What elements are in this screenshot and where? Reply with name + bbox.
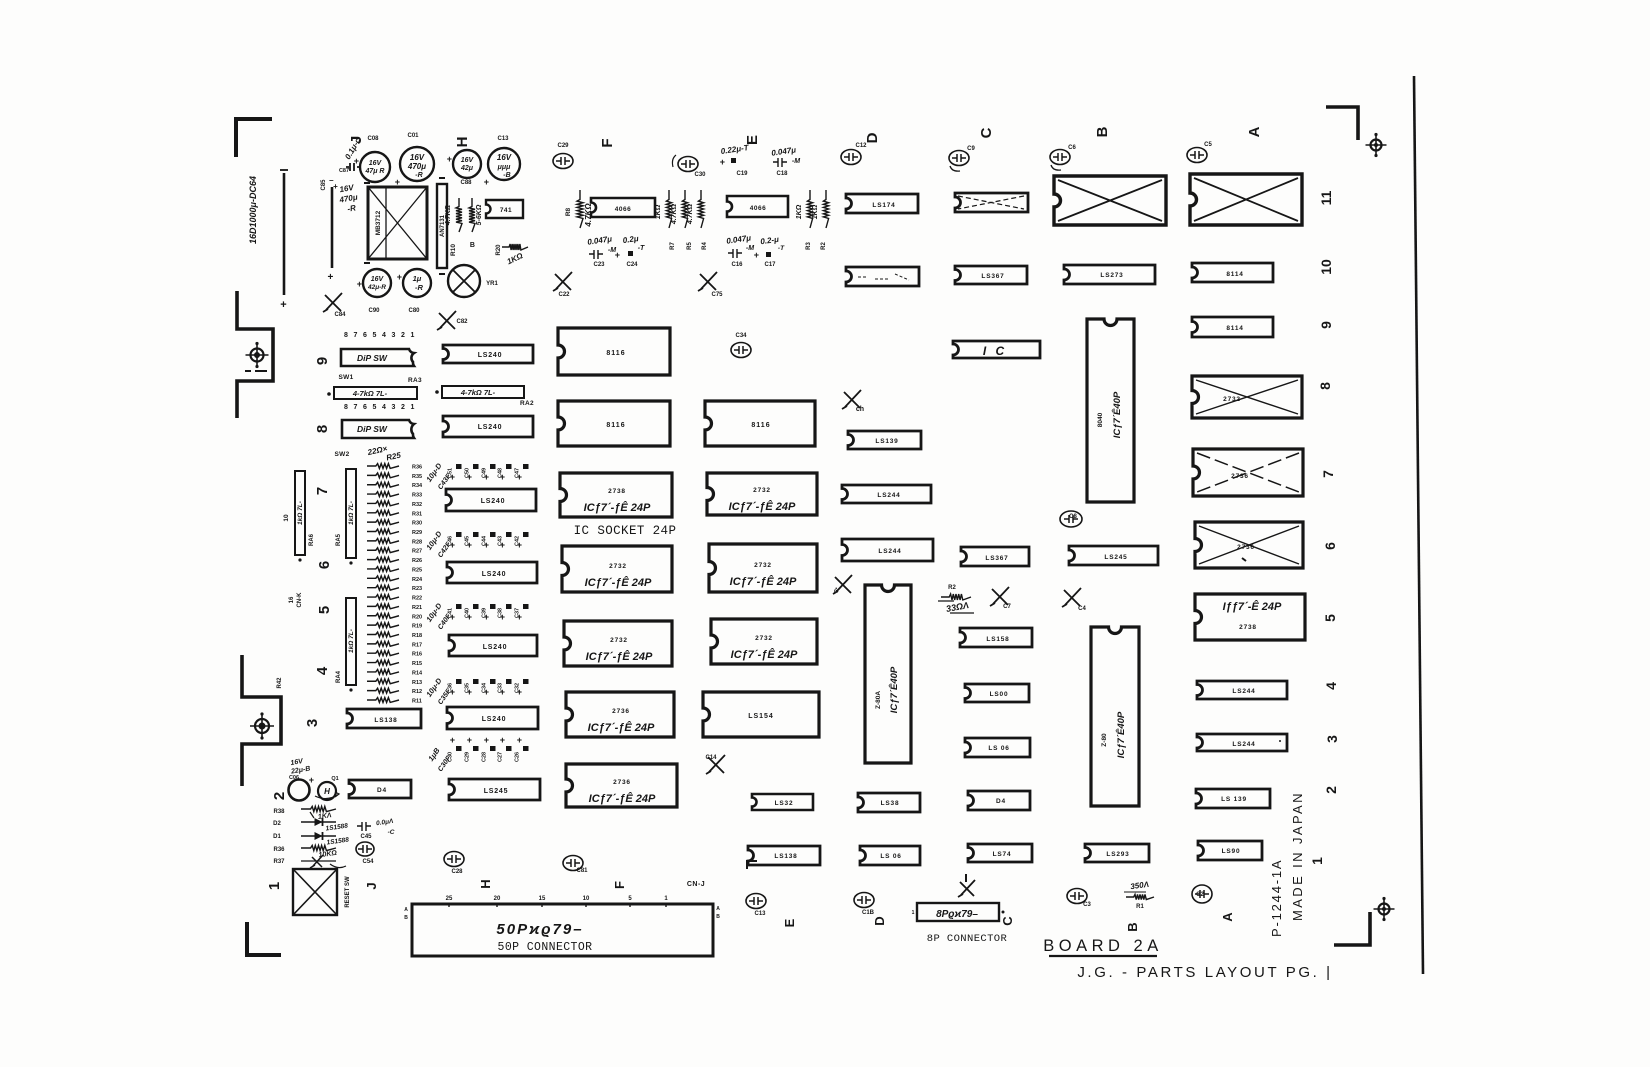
IC crossed big B row11: [1054, 176, 1166, 225]
column letter E top: [744, 135, 761, 145]
resistor R11 5.6K: [469, 198, 483, 232]
svg-text:R13: R13: [412, 680, 422, 686]
capacitor C2: [1192, 885, 1212, 903]
svg-text:C33: C33: [498, 683, 504, 693]
svg-text:C23: C23: [593, 262, 605, 268]
svg-text:+: +: [754, 250, 760, 260]
svg-text:2736: 2736: [1231, 473, 1249, 480]
svg-text:10: 10: [583, 896, 590, 902]
svg-text:DiP SW: DiP SW: [357, 424, 388, 434]
cut mark C22: [553, 272, 572, 298]
svg-text:16V: 16V: [371, 276, 385, 283]
svg-text:C14: C14: [705, 755, 717, 761]
svg-text:15: 15: [539, 896, 546, 902]
capacitor C87 value scrawl: [343, 136, 363, 161]
capacitor C13 bottom: [746, 894, 766, 918]
svg-text:3: 3: [392, 404, 396, 411]
IC LS240 row 6: [447, 562, 537, 583]
svg-text:A: A: [1246, 126, 1263, 137]
IC LS244 A row3: [1197, 734, 1287, 751]
svg-text:3: 3: [304, 719, 321, 727]
column letter J top: [348, 136, 365, 144]
label R42: [277, 677, 283, 689]
svg-text:C6: C6: [1068, 145, 1076, 151]
IC LS90: [1198, 841, 1262, 860]
svg-text:1KΩ: 1KΩ: [655, 204, 662, 219]
svg-text:RA4: RA4: [336, 670, 342, 683]
text J.G. PARTS LAYOUT PG.1: [1077, 964, 1332, 981]
IC LS138 row 3: [347, 709, 421, 728]
svg-text:5: 5: [1322, 614, 1338, 622]
svg-text:4.7KΩ: 4.7KΩ: [671, 203, 678, 225]
IC LS158: [960, 628, 1032, 647]
svg-text:ICƒ7´-ƒÊ 24P: ICƒ7´-ƒÊ 24P: [589, 792, 656, 805]
capacitor C87 symbol: [339, 163, 360, 174]
svg-text:LS158: LS158: [986, 636, 1009, 643]
svg-text:LS 06: LS 06: [880, 853, 901, 860]
svg-text:D4: D4: [996, 798, 1006, 805]
IC socket Z-80 40P: [1091, 627, 1139, 806]
svg-text:C46: C46: [448, 536, 454, 546]
svg-text:R14: R14: [412, 670, 423, 676]
svg-text:ICƒ7´Ê40P: ICƒ7´Ê40P: [1111, 391, 1123, 438]
svg-text:8: 8: [344, 332, 348, 339]
svg-text:RA2: RA2: [520, 400, 534, 407]
net label CN-J: [687, 881, 705, 888]
capacitor C85 value scrawl: [333, 182, 358, 214]
cut mark C7: [990, 587, 1011, 610]
svg-text:C29: C29: [557, 143, 569, 149]
svg-text:CN-K: CN-K: [297, 592, 303, 608]
svg-text:4: 4: [1323, 682, 1339, 690]
svg-text:7: 7: [354, 332, 358, 339]
row number 4 left: [314, 666, 331, 675]
svg-text:+: +: [500, 735, 506, 745]
svg-text:C85: C85: [321, 179, 327, 191]
IC LS240 row 7: [446, 489, 536, 511]
svg-text:4: 4: [382, 404, 386, 411]
svg-text:ICƒ7´-ƒÊ 24P: ICƒ7´-ƒÊ 24P: [730, 575, 797, 588]
svg-text:6: 6: [363, 332, 367, 339]
DIP switch SW2 box row 8: [342, 420, 414, 438]
svg-text:4066: 4066: [750, 205, 766, 212]
svg-text:R2: R2: [948, 585, 956, 591]
svg-text:C49: C49: [482, 468, 488, 478]
svg-text:C82: C82: [456, 319, 468, 325]
IC LS139: [848, 431, 921, 449]
svg-text:2: 2: [401, 404, 405, 411]
svg-text:C8: C8: [1069, 514, 1077, 520]
svg-text:1KΩ: 1KΩ: [796, 204, 803, 219]
svg-text:C41: C41: [448, 608, 454, 618]
text P-1244-1A rotated: [1269, 859, 1284, 937]
svg-text:C45: C45: [465, 536, 471, 546]
svg-text:ICƒ7´-ƒÊ 24P: ICƒ7´-ƒÊ 24P: [729, 500, 796, 513]
svg-text:C28: C28: [451, 869, 463, 875]
svg-text:5: 5: [373, 404, 377, 411]
pin digits row8: [344, 404, 415, 411]
resistor 4.7K (F2): [671, 190, 688, 228]
capacitor C23: [587, 234, 617, 268]
svg-text:R22: R22: [412, 596, 422, 602]
IC socket 2732 E row6: [709, 544, 817, 592]
svg-text:ICƒ7´-ƒÊ 24P: ICƒ7´-ƒÊ 24P: [585, 576, 652, 589]
svg-text:R42: R42: [277, 677, 283, 689]
svg-text:μμμ: μμμ: [497, 164, 511, 171]
column letter J bottom: [364, 882, 379, 889]
IC socket 2738 A row5: [1195, 594, 1305, 640]
svg-text:LS 06: LS 06: [988, 745, 1009, 752]
svg-text:16: 16: [289, 596, 295, 603]
svg-text:D4: D4: [377, 787, 387, 794]
svg-text:4066: 4066: [615, 206, 631, 213]
capacitor C24: [615, 234, 645, 268]
svg-text:50Pϰϱ79–: 50Pϰϱ79–: [496, 921, 583, 938]
svg-text:C16: C16: [731, 262, 743, 268]
svg-text:C: C: [1000, 916, 1015, 926]
capacitor C8: [1060, 511, 1082, 527]
svg-text:C22: C22: [558, 292, 570, 298]
IC socket Z-80A 40P: [865, 585, 911, 763]
svg-text:C54: C54: [362, 859, 374, 865]
row number 6 left: [316, 561, 333, 569]
8P connector box: [912, 903, 1005, 921]
svg-text:16V: 16V: [497, 153, 512, 162]
IC 4066 (1): [591, 198, 655, 217]
resistor R37: [273, 855, 346, 868]
row number 2 left: [271, 792, 288, 800]
svg-text:47μ R: 47μ R: [364, 168, 384, 175]
svg-text:F: F: [612, 881, 627, 889]
svg-text:2736: 2736: [1237, 544, 1255, 551]
svg-text:LS139: LS139: [875, 438, 898, 445]
svg-text:C30: C30: [694, 172, 706, 178]
svg-text:1kΩ 7L-: 1kΩ 7L-: [348, 501, 355, 525]
IC 4066 (2): [727, 196, 788, 217]
svg-text:2: 2: [271, 792, 288, 800]
svg-text:-R: -R: [415, 283, 423, 292]
svg-text:C13: C13: [754, 911, 766, 917]
svg-text:+: +: [450, 735, 456, 745]
row number 11 right: [1318, 190, 1334, 205]
svg-text:H: H: [454, 137, 471, 148]
svg-text:R28: R28: [412, 539, 422, 545]
row number 9 left: [314, 357, 331, 365]
svg-text:2732: 2732: [609, 563, 627, 570]
svg-text:MB3712: MB3712: [375, 210, 382, 235]
svg-text:LS90: LS90: [1222, 848, 1241, 855]
reset switch crossed box: [293, 869, 351, 915]
svg-text:R37: R37: [273, 859, 285, 865]
svg-text:R26: R26: [412, 558, 422, 564]
svg-text:6: 6: [316, 561, 333, 569]
svg-text:+: +: [467, 735, 473, 745]
svg-text:YR1: YR1: [486, 281, 498, 287]
svg-text:IC SOCKET 24P: IC SOCKET 24P: [574, 524, 677, 538]
capacitor C64 body line: [280, 170, 288, 311]
svg-text:R15: R15: [412, 661, 422, 667]
column letter H top: [454, 137, 471, 148]
svg-text:C43: C43: [498, 536, 504, 546]
row number 8 right: [1317, 382, 1333, 390]
svg-text:+: +: [484, 177, 490, 187]
capacitor C5: [1187, 142, 1212, 163]
resistor array RA2 bar: [435, 386, 524, 398]
50P connector scrawl: [496, 921, 583, 938]
svg-text:3: 3: [392, 332, 396, 339]
resistor R9 4.7K: [445, 198, 462, 232]
IC 8116 F row9: [558, 328, 670, 375]
svg-text:2732: 2732: [610, 637, 628, 644]
svg-text:R12: R12: [412, 689, 422, 695]
svg-text:1: 1: [411, 332, 415, 339]
IC crossed big A row11: [1190, 174, 1302, 225]
svg-text:6: 6: [1322, 542, 1338, 550]
svg-text:LS174: LS174: [872, 202, 895, 209]
IC LS06 C: [965, 738, 1030, 757]
svg-text:R33: R33: [412, 493, 422, 499]
svg-text:4: 4: [314, 666, 331, 675]
label SW1: [339, 374, 354, 381]
svg-text:470μ: 470μ: [407, 162, 426, 171]
svg-text:7: 7: [314, 487, 331, 495]
svg-text:C88: C88: [460, 180, 472, 186]
svg-text:B: B: [470, 242, 476, 249]
svg-text:LS240: LS240: [478, 424, 503, 431]
svg-text:SW2: SW2: [335, 451, 350, 458]
IC LS240 row 5: [449, 635, 537, 656]
svg-text:BOARD 2A: BOARD 2A: [1043, 937, 1162, 955]
svg-text:LS240: LS240: [483, 644, 508, 651]
svg-text:C87: C87: [339, 168, 349, 174]
svg-text:8: 8: [344, 404, 348, 411]
svg-text:MADE IN JAPAN: MADE IN JAPAN: [1290, 791, 1305, 921]
column letter B top: [1094, 126, 1111, 137]
svg-text:C7: C7: [1003, 604, 1011, 610]
svg-text:R29: R29: [412, 530, 422, 536]
text BOARD 2A: [1043, 937, 1162, 956]
svg-text:ICƒ7´-ƒÊ 24P: ICƒ7´-ƒÊ 24P: [586, 650, 653, 663]
IC LS245 B: [1069, 546, 1158, 565]
svg-text:A: A: [404, 907, 408, 913]
svg-text:LS00: LS00: [990, 691, 1009, 698]
svg-text:+: +: [327, 272, 334, 283]
dashed mark under F1: [245, 370, 267, 372]
IC D4 C: [968, 791, 1030, 810]
column letter E bottom: [782, 918, 797, 927]
capacitor C88: [447, 150, 481, 186]
svg-text:7: 7: [1320, 470, 1336, 478]
svg-text:R4: R4: [702, 242, 708, 250]
capacitor C80: [397, 269, 431, 314]
IC LS06 D: [860, 846, 920, 865]
svg-text:C13: C13: [497, 136, 509, 142]
row number 7 left: [314, 487, 331, 495]
svg-text:D2: D2: [273, 821, 281, 827]
svg-text:ICƒ7´-ƒÊ 24P: ICƒ7´-ƒÊ 24P: [731, 648, 798, 661]
svg-text:RA6: RA6: [309, 533, 315, 546]
svg-text:1: 1: [1309, 857, 1325, 865]
capacitor C19: [720, 143, 750, 177]
row number 9 right: [1318, 321, 1334, 329]
svg-text:6: 6: [363, 404, 367, 411]
svg-text:3: 3: [1324, 735, 1340, 743]
board corner bracket bottom-left: [247, 922, 281, 955]
svg-text:9: 9: [1318, 321, 1334, 329]
resistor ladder R11-R36: [367, 464, 423, 705]
svg-text:10: 10: [1318, 259, 1334, 275]
resistor 4.7K (F3): [687, 190, 704, 228]
label RA2: [520, 400, 534, 407]
IC socket 8040 40P: [1087, 319, 1134, 502]
svg-text:-R: -R: [415, 172, 422, 179]
svg-text:+: +: [517, 735, 523, 745]
svg-text:2738: 2738: [608, 488, 626, 495]
capacitor C34: [731, 333, 751, 358]
IC LS38: [858, 793, 920, 812]
row number 6 right: [1322, 542, 1338, 550]
svg-text:R1: R1: [1136, 904, 1144, 910]
svg-text:Z-80: Z-80: [1101, 733, 1108, 747]
svg-text:R34: R34: [412, 483, 423, 489]
row number 3 left: [304, 719, 321, 727]
row number 5 left: [316, 606, 333, 614]
svg-text:LS32: LS32: [775, 800, 794, 807]
svg-text:C47: C47: [515, 468, 521, 478]
svg-text:R21: R21: [412, 605, 422, 611]
svg-text:25: 25: [446, 896, 453, 902]
column letter A bottom: [1220, 912, 1235, 922]
IC socket 2732 E row5: [711, 619, 817, 664]
corner tick near E bottom: [747, 861, 757, 869]
svg-text:C42: C42: [515, 536, 521, 546]
text 8P CONNECTOR: [927, 933, 1008, 945]
svg-text:LS367: LS367: [985, 555, 1008, 562]
svg-text:LS245: LS245: [1104, 554, 1127, 561]
svg-text:LS367: LS367: [981, 273, 1004, 280]
svg-text:C90: C90: [368, 308, 380, 314]
svg-text:C: C: [978, 127, 995, 138]
svg-text:LS138: LS138: [774, 853, 797, 860]
svg-text:R35: R35: [412, 474, 422, 480]
capacitor C18: [771, 145, 801, 177]
svg-text:C34: C34: [482, 682, 488, 693]
capacitor C30: [672, 155, 706, 178]
fiducial mark F1: [246, 342, 269, 368]
IC LS154: [703, 692, 819, 737]
capacitor cluster C38-C42: [424, 529, 528, 559]
svg-text:LS293: LS293: [1106, 851, 1129, 858]
svg-text:D1: D1: [273, 834, 281, 840]
svg-text:LS244: LS244: [1232, 688, 1255, 695]
IC socket 2738 F row7: [560, 473, 672, 517]
svg-text:4-7kΩ 7L-: 4-7kΩ 7L-: [352, 389, 388, 398]
svg-text:8P CONNECTOR: 8P CONNECTOR: [927, 933, 1008, 945]
capacitor C29: [553, 143, 573, 169]
svg-text:2732: 2732: [755, 635, 773, 642]
svg-text:DiP SW: DiP SW: [357, 353, 388, 363]
module MB3712 crossed box: [364, 183, 427, 263]
IC crossed 2736 A row7: [1193, 449, 1303, 496]
svg-text:16V: 16V: [410, 153, 425, 162]
svg-text:Q1: Q1: [331, 776, 338, 782]
svg-text:H: H: [478, 879, 493, 888]
cut mark C82: [437, 311, 468, 330]
capacitor cluster C31-C35: [424, 676, 528, 706]
svg-text:8040: 8040: [1097, 412, 1104, 427]
svg-text:8: 8: [314, 425, 331, 433]
svg-text:LS273: LS273: [1100, 272, 1123, 279]
svg-text:C29: C29: [465, 752, 471, 762]
IC LS244 D row7: [842, 485, 931, 503]
IC LS367 C row10: [955, 266, 1027, 284]
svg-text:B: B: [716, 914, 720, 920]
cut mark C16 left: [833, 575, 852, 594]
resistor array RA3 bar: [327, 387, 417, 399]
column letter H bottom: [478, 879, 493, 888]
capacitor cluster C36-C40: [424, 601, 528, 631]
resistor R1 350ohm: [1124, 880, 1154, 910]
50P connector pin numbers: [404, 896, 720, 921]
svg-text:Iƒƒ7´-Ê 24P: Iƒƒ7´-Ê 24P: [1223, 600, 1282, 613]
capacitor C85 line: [321, 176, 335, 283]
svg-text:+: +: [397, 272, 403, 282]
svg-text:C3: C3: [1083, 902, 1091, 908]
svg-text:C32: C32: [515, 683, 521, 693]
IC LS367 C row6: [961, 547, 1029, 566]
svg-text:R36: R36: [273, 847, 285, 853]
svg-text:R19: R19: [412, 624, 422, 630]
svg-text:R24: R24: [412, 577, 423, 583]
svg-text:A: A: [1220, 912, 1235, 922]
svg-text:R25: R25: [412, 567, 422, 573]
IC marked I C: [953, 341, 1040, 358]
svg-text:16V: 16V: [461, 157, 475, 164]
scan right border line: [1414, 76, 1423, 974]
transistor Q1: [315, 776, 339, 800]
svg-text:F: F: [599, 138, 616, 147]
svg-text:5: 5: [373, 332, 377, 339]
svg-text:-T: -T: [638, 245, 645, 252]
svg-text:8Pϱϰ79–: 8Pϱϰ79–: [936, 909, 978, 920]
capacitor C9: [949, 146, 975, 171]
capacitor C45: [357, 818, 395, 840]
IC (illegible) D row10: [846, 267, 919, 286]
capacitor C06 value scrawl: [289, 758, 311, 781]
svg-text:C45: C45: [360, 834, 372, 840]
IC crossed small C row11: [955, 193, 1028, 212]
svg-text:P-1244-1A: P-1244-1A: [1269, 859, 1284, 937]
IC LS240 row 9: [443, 345, 533, 363]
cut mark ch: [842, 390, 864, 413]
IC LS139 A row2: [1196, 789, 1270, 808]
diode D2: [273, 818, 349, 833]
cut mark above 8P: [958, 874, 975, 897]
svg-text:RESET SW: RESET SW: [345, 876, 351, 908]
svg-text:R36: R36: [412, 465, 422, 471]
svg-text:R3: R3: [806, 242, 812, 250]
svg-text:C30: C30: [448, 752, 454, 762]
IC LS240 row 8: [443, 416, 533, 437]
svg-text:8116: 8116: [751, 422, 770, 429]
svg-text:C36: C36: [448, 683, 454, 693]
50P connector box: [412, 904, 713, 956]
text 50P CONNECTOR: [498, 941, 593, 954]
svg-text:2736: 2736: [612, 708, 630, 715]
svg-text:C1B: C1B: [862, 910, 875, 916]
svg-text:C27: C27: [498, 752, 504, 762]
IC 8114 A row9: [1192, 317, 1273, 337]
